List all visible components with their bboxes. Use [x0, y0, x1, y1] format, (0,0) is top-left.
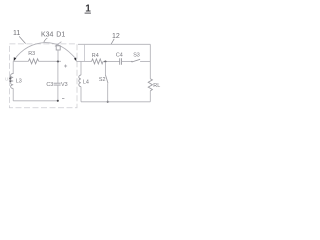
svg-text:C4: C4: [116, 53, 123, 59]
wire left bottom: [13, 100, 58, 102]
wire middle right: [76, 60, 91, 62]
resistor R3: [28, 59, 38, 64]
wire C3 branch lower: [57, 85, 59, 101]
minus polarity mark: [62, 98, 64, 100]
coupling arc wire: [14, 43, 76, 60]
svg-text:K34: K34: [41, 31, 54, 38]
capacitor C4: [120, 58, 122, 65]
wire S2 branch bottom: [107, 83, 109, 102]
wire right left drop: [84, 44, 86, 61]
voltage arrow U3: [9, 78, 11, 82]
diode D1 box: [56, 46, 60, 50]
wire S2 branch top: [104, 62, 106, 75]
wire right bottom: [81, 101, 150, 103]
svg-text:12: 12: [112, 33, 120, 40]
plus polarity mark: [64, 65, 67, 68]
svg-text:L3: L3: [16, 78, 22, 84]
wire R4 to C4: [103, 60, 120, 62]
resistor RL: [148, 79, 152, 91]
wire S3 to rail: [140, 60, 150, 62]
svg-text:S2: S2: [99, 77, 106, 83]
leader for K34: [44, 38, 48, 42]
node dot top of C3: [57, 61, 59, 63]
switch S3 blade: [132, 59, 140, 62]
wire left middle: [13, 60, 28, 62]
svg-text:11: 11: [13, 30, 20, 37]
switch K34 blade: [55, 42, 62, 47]
wire right top: [78, 43, 150, 45]
node dot S2 tap: [104, 60, 106, 62]
svg-text:L4: L4: [83, 80, 89, 86]
wire left rail lower: [12, 88, 14, 100]
svg-text:R3: R3: [28, 51, 35, 57]
wire D1 stub bottom: [57, 50, 59, 62]
wire C3 branch upper: [57, 62, 59, 83]
wire middle to node: [39, 60, 61, 62]
wire D1 stub top: [57, 44, 59, 46]
node dot S2 bottom: [107, 101, 109, 103]
arrowhead left: [14, 57, 17, 61]
switch S2 blade: [105, 75, 108, 84]
svg-text:R4: R4: [92, 53, 99, 59]
arrowhead right: [74, 58, 77, 62]
svg-text:V3: V3: [61, 82, 68, 88]
svg-text:S3: S3: [133, 52, 140, 58]
wire L4 branch bottom: [80, 87, 82, 102]
leader for 11: [19, 36, 25, 43]
svg-text:RL: RL: [153, 83, 160, 89]
wire right rail lower: [149, 91, 151, 102]
inductor L3: [11, 74, 14, 89]
wire left rail upper: [12, 61, 14, 74]
wire L4 branch top: [80, 61, 82, 75]
dash-dot box 11: [9, 44, 77, 108]
svg-text:U3: U3: [5, 76, 11, 81]
figure number 1: [85, 4, 92, 15]
node dot bottom of C3: [57, 100, 59, 102]
inductor L4: [79, 75, 81, 86]
resistor R4: [92, 59, 104, 64]
wire C4 to S3: [122, 60, 132, 62]
capacitor C3: [54, 83, 61, 85]
svg-text:C3: C3: [46, 82, 53, 88]
leader for 12: [111, 39, 114, 44]
svg-text:D1: D1: [56, 31, 65, 38]
wire right rail upper: [149, 44, 151, 78]
